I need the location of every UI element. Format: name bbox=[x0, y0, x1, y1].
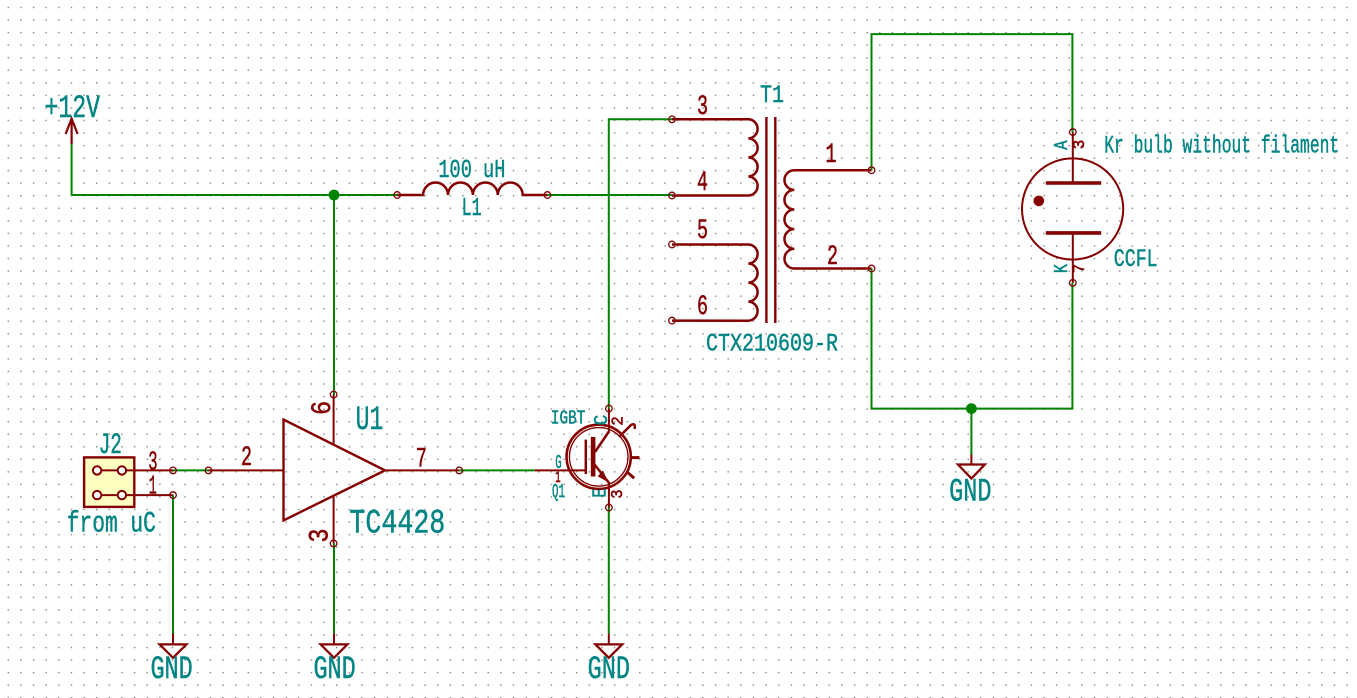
power +12V symbol bbox=[66, 119, 78, 145]
svg-text:3: 3 bbox=[609, 489, 628, 498]
svg-text:6: 6 bbox=[697, 292, 708, 323]
pin circle T1 pin 4 bbox=[669, 192, 676, 199]
pin circle U1 pin 7 bbox=[456, 467, 463, 474]
pin circle CCFL anode bbox=[1070, 129, 1077, 136]
pin circle Q1 collector bbox=[606, 405, 613, 412]
svg-text:6: 6 bbox=[308, 401, 339, 415]
pin circle T1 pin 5 bbox=[669, 241, 676, 248]
svg-text:CTX210609-R: CTX210609-R bbox=[706, 330, 838, 359]
pin circle J2 pin 3 bbox=[170, 467, 177, 474]
svg-text:TC4428: TC4428 bbox=[349, 506, 445, 544]
ground (under Q1) bbox=[595, 634, 622, 658]
svg-text:GND: GND bbox=[588, 651, 630, 688]
pin circle L1 pin 2 bbox=[544, 192, 551, 199]
svg-text:A: A bbox=[1051, 140, 1073, 150]
svg-text:K: K bbox=[1051, 263, 1073, 273]
wire U1 pin 3 to GND bbox=[333, 543, 335, 633]
svg-text:Kr bulb without filament: Kr bulb without filament bbox=[1104, 132, 1339, 161]
wire CCFL cathode down and left to T1 pin 2 bbox=[872, 269, 1073, 409]
junction bottom-right net / GND drop bbox=[966, 403, 977, 414]
pin circle L1 pin 1 bbox=[394, 192, 401, 199]
transformer T1 bbox=[672, 117, 872, 323]
svg-text:1: 1 bbox=[149, 473, 157, 503]
pin circle T1 pin 2 bbox=[868, 265, 875, 272]
svg-text:CCFL: CCFL bbox=[1114, 245, 1158, 274]
svg-text:GND: GND bbox=[313, 651, 355, 688]
svg-text:3: 3 bbox=[306, 529, 337, 543]
wire J2 pin 3 to U1 pin 2 bbox=[173, 469, 209, 471]
wire T1 pin 1 up and over to CCFL anode bbox=[872, 34, 1073, 170]
svg-text:1: 1 bbox=[826, 140, 837, 171]
wire +12V vertical drop bbox=[71, 144, 73, 195]
svg-text:GND: GND bbox=[150, 651, 192, 688]
svg-text:2: 2 bbox=[241, 443, 252, 474]
svg-text:2: 2 bbox=[610, 416, 629, 426]
svg-text:U1: U1 bbox=[356, 402, 384, 440]
wire IGBT emitter to GND bbox=[608, 508, 610, 634]
lamp CCFL (Kr bulb) bbox=[1022, 132, 1123, 283]
pin circle Q1 emitter bbox=[606, 504, 613, 511]
wire U1 pin 7 to IGBT gate bbox=[459, 469, 535, 471]
wire rail down to U1 pin 6 bbox=[333, 195, 335, 395]
pin circle CCFL cathode bbox=[1070, 280, 1077, 287]
ground (right, CCFL return) bbox=[958, 455, 985, 479]
wire L1 to T1 pin 4 bbox=[547, 194, 672, 196]
svg-text:3: 3 bbox=[1071, 140, 1090, 150]
svg-text:IGBT: IGBT bbox=[551, 408, 585, 430]
wire junction down to GND bbox=[970, 409, 972, 455]
junction +12V rail / U1 VDD bbox=[329, 190, 340, 201]
ground (under J2) bbox=[160, 634, 187, 658]
wire J2 pin 1 to GND bbox=[172, 495, 174, 633]
svg-text:2: 2 bbox=[827, 242, 838, 273]
pin circle U1 pin 2 bbox=[205, 467, 212, 474]
pin circle T1 pin 3 bbox=[669, 116, 676, 123]
pin circle U1 pin 3 bbox=[330, 540, 337, 547]
svg-text:100 uH: 100 uH bbox=[438, 155, 505, 185]
inductor L1 bbox=[397, 183, 547, 195]
wire +12V rail to L1 bbox=[72, 194, 398, 196]
svg-text:5: 5 bbox=[697, 216, 708, 247]
ground (under U1) bbox=[321, 634, 348, 658]
svg-text:1: 1 bbox=[555, 469, 560, 488]
svg-text:T1: T1 bbox=[760, 81, 784, 110]
svg-text:from uC: from uC bbox=[67, 508, 156, 542]
wire T1 pin 3 to IGBT collector bbox=[609, 119, 672, 408]
svg-text:L1: L1 bbox=[462, 193, 482, 223]
pin circle T1 pin 6 bbox=[669, 317, 676, 324]
op-amp U1 (TC4428 driver) bbox=[209, 395, 460, 544]
svg-text:7: 7 bbox=[416, 445, 427, 476]
pin circle T1 pin 1 bbox=[868, 167, 875, 174]
svg-text:+12V: +12V bbox=[45, 90, 101, 127]
connector J2 bbox=[84, 457, 173, 507]
svg-text:J2: J2 bbox=[99, 429, 122, 463]
svg-text:3: 3 bbox=[697, 92, 708, 123]
pin circle U1 pin 6 bbox=[330, 391, 337, 398]
svg-text:7: 7 bbox=[1071, 264, 1090, 274]
transistor Q1 (IGBT) bbox=[535, 409, 640, 508]
pin circle J2 pin 1 bbox=[170, 492, 177, 499]
svg-text:4: 4 bbox=[697, 168, 708, 199]
svg-text:GND: GND bbox=[949, 473, 991, 510]
